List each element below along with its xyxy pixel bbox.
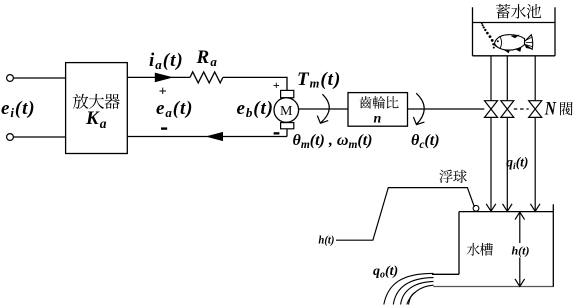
amplifier box U1 bbox=[66, 63, 128, 154]
level arrow head up bbox=[515, 212, 525, 220]
tank bottom bbox=[433, 286, 554, 288]
level arrow head down bbox=[515, 279, 525, 287]
motor M body bbox=[274, 98, 299, 123]
minus sign at motor bottom bbox=[274, 132, 280, 134]
tank right wall bbox=[552, 204, 554, 286]
svg-text:N: N bbox=[544, 100, 557, 120]
svg-text:+: + bbox=[273, 78, 280, 92]
svg-text:qo(t): qo(t) bbox=[373, 264, 398, 281]
rotation arc at output shaft bbox=[416, 93, 424, 124]
reservoir bottom bbox=[473, 55, 556, 57]
reservoir right wall bbox=[554, 7, 556, 56]
svg-text:ea(t): ea(t) bbox=[156, 98, 193, 120]
svg-text:qi(t): qi(t) bbox=[506, 155, 528, 173]
fish tail stripes bbox=[526, 37, 533, 47]
svg-text:θc(t): θc(t) bbox=[411, 132, 440, 151]
svg-text:M: M bbox=[280, 104, 293, 119]
pipe 2 upper bbox=[506, 56, 508, 101]
pipe 1 arrowhead bbox=[486, 204, 496, 212]
reservoir water line bbox=[473, 22, 556, 24]
fish pelvic fin 2 bbox=[515, 48, 522, 52]
level arrow line lower bbox=[519, 258, 521, 286]
fish tail dark lower lobe bbox=[525, 44, 533, 49]
arrowhead of motor rotation arc bbox=[317, 116, 328, 124]
fish mouth bbox=[494, 45, 497, 47]
svg-text:eb(t): eb(t) bbox=[237, 98, 274, 120]
tank label 水槽 bbox=[467, 243, 493, 256]
valve 3 bbox=[529, 101, 542, 118]
tank left wall bbox=[458, 212, 460, 275]
fish body bbox=[495, 35, 525, 50]
resistor Ra zigzag bbox=[190, 72, 223, 83]
wire: top terminal to amplifier bbox=[13, 77, 65, 79]
fish dorsal fin bbox=[511, 35, 520, 39]
amplifier label 放大器 bbox=[73, 94, 120, 109]
float label 浮球 bbox=[439, 170, 467, 183]
fish pelvic fin 1 bbox=[504, 50, 511, 54]
valve 1 bbox=[485, 101, 498, 118]
wire: bottom terminal to amplifier bbox=[13, 136, 65, 138]
reservoir label 蓄水池 bbox=[496, 4, 541, 19]
wire: resistor to motor top bbox=[223, 77, 287, 91]
tank top edge bbox=[459, 211, 553, 213]
float lever bbox=[336, 188, 474, 241]
pipe 1 upper bbox=[490, 56, 492, 101]
rotation arc at motor shaft bbox=[321, 94, 330, 123]
pipe 2 lower bbox=[506, 117, 508, 211]
float ball bbox=[473, 205, 479, 211]
valve 2 bbox=[501, 101, 514, 118]
wire: motor bottom lead bbox=[286, 129, 288, 137]
dashed link between valves bbox=[514, 108, 529, 110]
fish eye bbox=[497, 40, 499, 42]
gearbox label 齒輪比 bbox=[360, 96, 399, 109]
current arrow i_a bbox=[155, 73, 174, 83]
pipe 3 arrowhead bbox=[530, 204, 540, 212]
tank outlet top bbox=[432, 273, 459, 275]
level arrow line upper bbox=[519, 213, 521, 243]
reservoir left wall bbox=[472, 7, 474, 56]
shaft: motor to gearbox bbox=[299, 108, 348, 110]
pipe 3 upper bbox=[534, 56, 536, 101]
gearbox box bbox=[348, 93, 408, 127]
shaft: gearbox to valves bbox=[408, 108, 485, 110]
label 閥 bbox=[560, 102, 573, 115]
svg-text:n: n bbox=[374, 112, 382, 127]
input terminal bottom bbox=[7, 134, 14, 141]
feedback arrow on bottom wire bbox=[206, 132, 224, 141]
svg-text:h(t): h(t) bbox=[512, 244, 530, 258]
outflow stream arcs bbox=[384, 273, 434, 304]
wire: amplifier to resistor bbox=[127, 76, 190, 78]
wire: bottom return bbox=[127, 136, 287, 138]
svg-text:h(t): h(t) bbox=[318, 233, 334, 247]
input terminal top bbox=[7, 75, 14, 82]
svg-text:ei(t): ei(t) bbox=[1, 98, 36, 120]
fish tail bbox=[525, 35, 533, 50]
pipe 2 arrowhead bbox=[503, 204, 513, 212]
fish gill line bbox=[500, 36, 502, 49]
svg-text:ia(t): ia(t) bbox=[149, 50, 184, 72]
arrowhead of output rotation arc bbox=[413, 117, 424, 125]
pipe 1 lower bbox=[490, 117, 492, 211]
pipe 3 lower bbox=[534, 117, 536, 211]
motor M brush top bbox=[281, 90, 294, 97]
motor M brush bottom bbox=[281, 123, 294, 129]
bubbles bbox=[481, 23, 495, 49]
minus sign at e_a bbox=[161, 127, 167, 129]
